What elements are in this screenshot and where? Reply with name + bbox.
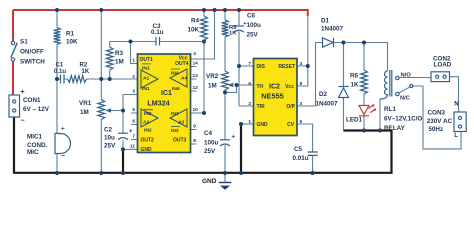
svg-text:1M: 1M — [208, 83, 217, 90]
svg-text:25V: 25V — [204, 148, 216, 155]
svg-text:N/C: N/C — [400, 96, 411, 102]
svg-text:IC2: IC2 — [269, 84, 280, 91]
svg-text:L: L — [454, 133, 458, 139]
svg-text:MIC1: MIC1 — [27, 134, 43, 141]
svg-text:7: 7 — [248, 61, 251, 67]
svg-text:CON3: CON3 — [428, 109, 446, 116]
svg-text:OUT3: OUT3 — [173, 138, 187, 144]
svg-text:3: 3 — [300, 101, 303, 107]
svg-text:−: − — [21, 118, 25, 125]
svg-text:IN3: IN3 — [171, 111, 179, 117]
svg-text:GND: GND — [257, 122, 269, 128]
svg-text:50Hz: 50Hz — [428, 126, 443, 133]
svg-text:OUT1: OUT1 — [140, 57, 154, 63]
svg-text:1K: 1K — [351, 81, 360, 88]
svg-text:0.1u: 0.1u — [151, 29, 164, 36]
svg-text:C1: C1 — [56, 63, 64, 69]
svg-text:IC1: IC1 — [161, 90, 172, 97]
svg-text:+: + — [21, 89, 25, 96]
svg-text:R2: R2 — [80, 63, 88, 69]
svg-text:R4: R4 — [191, 18, 200, 25]
svg-text:6V – 12V: 6V – 12V — [23, 106, 50, 113]
svg-text:6V–12V,1C/O: 6V–12V,1C/O — [384, 116, 422, 123]
svg-text:1M: 1M — [115, 59, 124, 66]
svg-text:14: 14 — [193, 61, 199, 67]
svg-text:S1: S1 — [20, 39, 28, 46]
svg-text:A2: A2 — [143, 120, 150, 126]
svg-text:2: 2 — [248, 101, 251, 107]
svg-text:R6: R6 — [350, 73, 359, 80]
svg-text:C5: C5 — [294, 146, 303, 153]
svg-text:GND: GND — [141, 147, 153, 153]
svg-text:Vcc: Vcc — [285, 84, 294, 90]
svg-text:7: 7 — [132, 134, 135, 140]
svg-text:IN3: IN3 — [171, 128, 179, 134]
svg-text:CV: CV — [287, 122, 295, 128]
svg-text:LED1: LED1 — [346, 117, 363, 124]
svg-text:D1: D1 — [321, 18, 330, 25]
svg-text:R3: R3 — [115, 50, 124, 57]
svg-text:2: 2 — [132, 74, 135, 80]
svg-text:C4: C4 — [204, 130, 213, 137]
svg-text:IN2: IN2 — [144, 127, 152, 133]
svg-text:RELAY: RELAY — [384, 125, 406, 132]
svg-text:+: + — [232, 135, 236, 141]
svg-text:0.01u: 0.01u — [293, 155, 309, 162]
svg-text:N/O: N/O — [401, 72, 412, 78]
svg-text:10K: 10K — [66, 38, 78, 45]
svg-text:1K: 1K — [82, 69, 90, 75]
svg-text:D2: D2 — [319, 91, 328, 98]
svg-text:ON/OFF: ON/OFF — [20, 49, 44, 56]
svg-text:6: 6 — [248, 81, 251, 87]
svg-text:OUT4: OUT4 — [175, 61, 189, 67]
svg-text:R1: R1 — [66, 30, 75, 37]
svg-text:O/P: O/P — [286, 104, 295, 110]
svg-text:6: 6 — [132, 119, 135, 125]
svg-text:RESET: RESET — [278, 64, 295, 70]
svg-text:8: 8 — [193, 138, 196, 144]
svg-text:13: 13 — [193, 73, 199, 79]
svg-text:A4: A4 — [181, 76, 188, 82]
svg-text:LM324: LM324 — [147, 98, 169, 107]
svg-text:NE555: NE555 — [261, 92, 284, 101]
svg-text:IN4: IN4 — [172, 86, 180, 92]
svg-text:VR2: VR2 — [206, 73, 219, 80]
svg-text:A3: A3 — [178, 120, 185, 126]
svg-text:10u: 10u — [104, 135, 115, 142]
svg-text:25V: 25V — [247, 32, 259, 39]
svg-text:IN1: IN1 — [142, 65, 150, 71]
svg-text:MIC: MIC — [27, 149, 39, 156]
svg-text:LOAD: LOAD — [434, 62, 452, 69]
svg-text:C6: C6 — [247, 13, 256, 20]
svg-text:5: 5 — [300, 119, 303, 125]
svg-text:100u: 100u — [204, 139, 219, 146]
svg-text:−: − — [61, 153, 65, 160]
svg-text:N: N — [454, 101, 458, 107]
svg-text:IN4: IN4 — [171, 71, 179, 77]
svg-text:9: 9 — [193, 124, 196, 130]
svg-text:A1: A1 — [143, 76, 150, 82]
svg-text:IN2: IN2 — [144, 111, 152, 117]
svg-text:1: 1 — [248, 119, 251, 125]
svg-text:230V AC: 230V AC — [427, 118, 453, 125]
svg-text:1N4007: 1N4007 — [321, 26, 344, 33]
svg-text:10: 10 — [193, 107, 199, 113]
svg-text:+: + — [61, 127, 65, 133]
svg-text:1: 1 — [132, 58, 135, 64]
svg-text:0.1u: 0.1u — [54, 69, 66, 75]
svg-text:25V: 25V — [104, 143, 116, 150]
svg-text:5: 5 — [132, 107, 135, 113]
svg-text:8: 8 — [300, 81, 303, 87]
svg-text:OUT2: OUT2 — [141, 137, 155, 143]
svg-text:12: 12 — [193, 85, 199, 91]
svg-text:GND: GND — [202, 178, 217, 185]
svg-text:IN1: IN1 — [142, 86, 150, 92]
svg-text:TH: TH — [257, 84, 264, 90]
svg-text:4: 4 — [193, 51, 196, 57]
svg-text:1M: 1M — [80, 109, 89, 116]
svg-text:VR1: VR1 — [79, 100, 92, 107]
svg-text:DIS: DIS — [257, 64, 266, 70]
svg-text:TRI: TRI — [257, 104, 266, 110]
svg-text:RL1: RL1 — [384, 106, 396, 113]
svg-text:100u: 100u — [247, 22, 262, 29]
svg-text:1K: 1K — [229, 31, 237, 37]
svg-text:10K: 10K — [187, 27, 199, 34]
svg-text:C2: C2 — [104, 126, 113, 133]
svg-text:4: 4 — [300, 61, 303, 67]
svg-text:CON1: CON1 — [23, 97, 41, 104]
svg-text:11: 11 — [130, 144, 135, 150]
svg-text:1N4007: 1N4007 — [316, 101, 339, 108]
svg-text:SWITCH: SWITCH — [20, 59, 45, 66]
svg-text:3: 3 — [132, 89, 135, 95]
